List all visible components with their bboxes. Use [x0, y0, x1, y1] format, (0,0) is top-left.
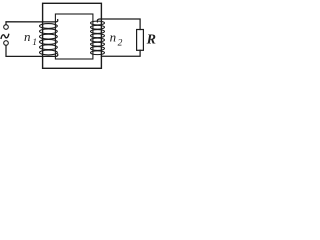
svg-text:n: n [110, 29, 117, 44]
wire from AC source top terminal to primary [6, 20, 58, 25]
svg-text:2: 2 [118, 39, 123, 49]
secondary winding n2 turn 7 [91, 47, 105, 51]
wire resistor bottom to secondary [101, 50, 140, 56]
secondary winding n2 turn 2 [91, 25, 105, 29]
primary winding n1 turn 5 [40, 45, 58, 50]
AC source bottom terminal [4, 41, 9, 46]
resistor R box [137, 30, 144, 51]
primary winding n1 turn 6 [40, 50, 58, 55]
AC source top terminal [4, 25, 9, 30]
svg-text:R: R [146, 32, 156, 47]
svg-text:n: n [24, 29, 31, 44]
AC source tilde symbol [1, 34, 9, 38]
secondary winding n2 turn 4 [91, 34, 105, 38]
primary winding n1 turn 3 [40, 34, 58, 39]
secondary winding n2 turn 1 [91, 21, 105, 25]
secondary winding n2 turn 3 [91, 30, 105, 34]
secondary winding n2 turn 6 [91, 42, 105, 46]
transformer core inner rectangle (window) [55, 14, 93, 59]
svg-text:1: 1 [32, 38, 37, 48]
secondary winding n2 turn 8 [91, 51, 105, 55]
secondary winding n2 turn 5 [91, 38, 105, 42]
primary winding n1 turn 1 [40, 24, 58, 29]
primary winding n1 turn 2 [40, 29, 58, 34]
wire secondary top to resistor [97, 19, 140, 30]
primary winding n1 turn 4 [40, 40, 58, 45]
transformer core outer rectangle [43, 3, 102, 68]
wire from AC source bottom terminal to primary [6, 45, 58, 56]
